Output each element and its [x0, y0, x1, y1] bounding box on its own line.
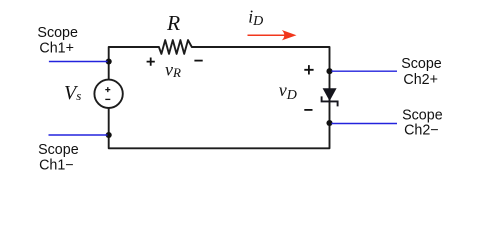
- node Ch1+ junction dot: [106, 58, 112, 64]
- node Ch1- junction dot: [106, 132, 112, 138]
- svg-text:Ch2+: Ch2+: [403, 72, 438, 88]
- wire scope Ch2- blue: [332, 123, 398, 125]
- vD plus sign: [304, 65, 313, 74]
- svg-text:R: R: [166, 11, 180, 35]
- current iD arrow red: [248, 34, 289, 36]
- svg-text:Ch2−: Ch2−: [404, 123, 439, 139]
- node Ch2+ junction dot: [326, 68, 332, 74]
- svg-text:Ch1+: Ch1+: [39, 41, 74, 57]
- wire scope Ch1- blue: [49, 134, 108, 136]
- diode D1 cathode bar with zener ticks: [322, 96, 338, 106]
- node Ch2- junction dot: [326, 120, 332, 126]
- vD minus sign: [304, 109, 312, 111]
- voltage source minus sign: [105, 98, 110, 100]
- svg-text:Scope: Scope: [38, 142, 79, 158]
- wire scope Ch1+ blue: [49, 61, 108, 63]
- diode D1 triangle: [323, 88, 337, 101]
- voltage source Vs circle: [94, 80, 122, 108]
- voltage source plus sign: [105, 87, 110, 92]
- vR minus sign: [194, 60, 202, 62]
- svg-text:Scope: Scope: [401, 56, 442, 72]
- svg-text:Scope: Scope: [402, 107, 443, 123]
- wire scope Ch2+ blue: [332, 70, 398, 72]
- wire main loop with resistor zigzag: [109, 40, 330, 148]
- vR plus sign: [147, 58, 155, 66]
- svg-text:Ch1−: Ch1−: [39, 157, 74, 173]
- svg-text:Scope: Scope: [37, 25, 78, 41]
